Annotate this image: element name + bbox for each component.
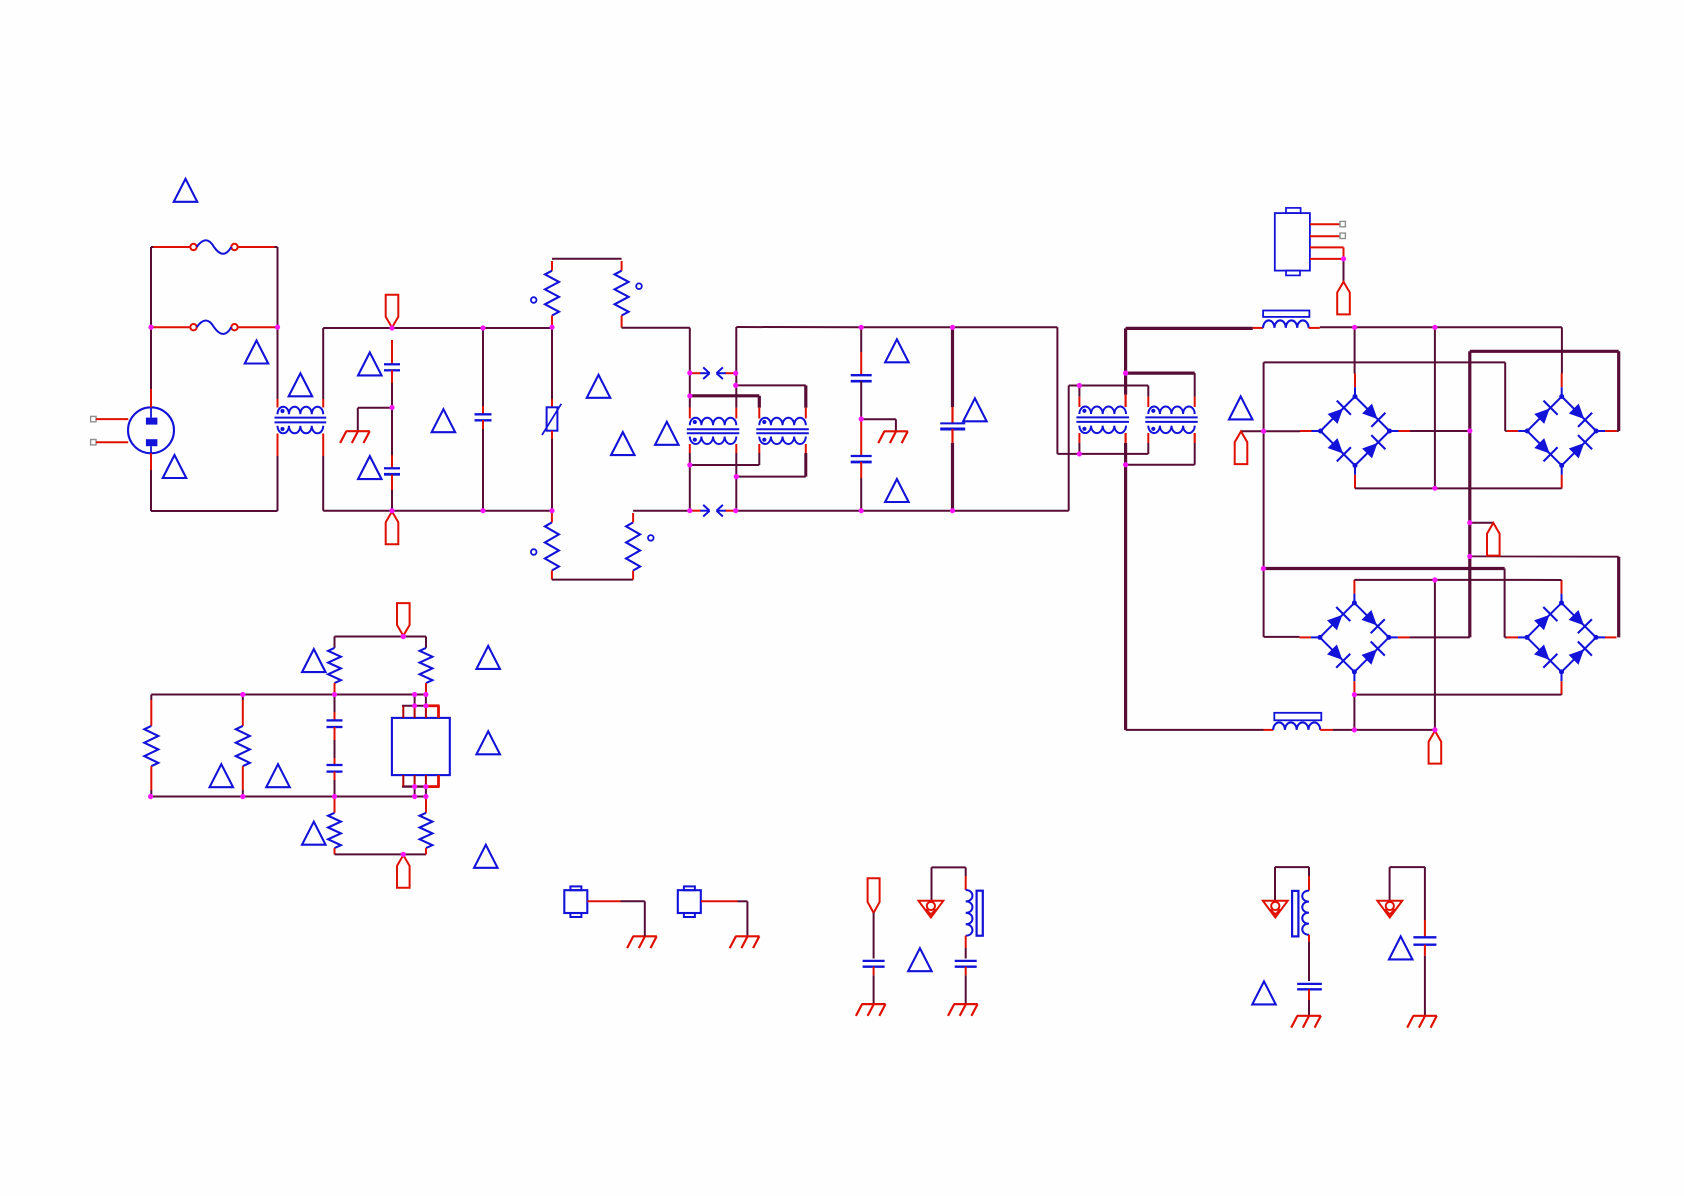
- junction: [734, 474, 739, 479]
- junction: [423, 794, 428, 799]
- wire: [1264, 729, 1274, 731]
- wire: [1310, 235, 1340, 237]
- wire rail bottom: [151, 796, 426, 798]
- wire: [1147, 433, 1149, 443]
- IC bottom pins: [402, 785, 426, 787]
- junction: [687, 462, 692, 467]
- junction: [1123, 371, 1128, 376]
- wire: [322, 434, 324, 457]
- junction: [332, 692, 337, 697]
- wire fuse2 left stub: [151, 326, 154, 328]
- label triangle: [1252, 981, 1276, 1004]
- junction: [859, 325, 864, 330]
- wire: [1343, 259, 1345, 282]
- wire: [277, 434, 279, 457]
- wire: [425, 787, 427, 797]
- wire C pri right up: [1124, 373, 1127, 395]
- wire: [1353, 695, 1355, 730]
- wire choke1 right down: [322, 456, 324, 511]
- wire: [1561, 579, 1563, 581]
- wire: [391, 370, 393, 383]
- wire N up: [1068, 386, 1070, 511]
- wire: [1424, 956, 1426, 1016]
- wire D sec left: [1147, 443, 1149, 454]
- wire: [689, 396, 691, 408]
- wire L across: [1057, 453, 1148, 455]
- wire: [1308, 867, 1310, 876]
- wire link CD bottom: [1126, 464, 1195, 466]
- pin1 mark: [648, 535, 654, 541]
- resistor R9: [328, 813, 341, 848]
- wire: [805, 408, 807, 419]
- wire: [334, 712, 336, 720]
- capacitor C11: [1297, 983, 1322, 985]
- wire: [391, 408, 393, 456]
- wire: [689, 453, 691, 465]
- wire: [1389, 867, 1391, 900]
- wire: [150, 766, 152, 790]
- wire: [150, 453, 152, 470]
- fuse F2: [190, 324, 196, 330]
- wire: [737, 900, 747, 902]
- junction: [389, 325, 394, 330]
- connector pin P1: [91, 416, 96, 421]
- wire: [1504, 569, 1506, 638]
- earth ground: [627, 936, 657, 948]
- wire N down: [150, 470, 152, 511]
- wire: [965, 975, 967, 1004]
- wire: [758, 453, 760, 465]
- junction: [412, 692, 417, 697]
- wire: [391, 490, 393, 511]
- wire: [931, 867, 933, 900]
- junction: [1341, 256, 1346, 261]
- wire loop top: [335, 636, 427, 638]
- wire: [1124, 433, 1126, 443]
- junction: [1352, 692, 1357, 697]
- wire: [391, 383, 393, 408]
- CM choke L1: [278, 407, 324, 434]
- label triangle: [655, 422, 679, 445]
- wire: [746, 901, 748, 936]
- resistor R6: [236, 726, 250, 766]
- wire: [551, 261, 553, 271]
- wire: [873, 967, 875, 976]
- label triangle: [245, 341, 269, 364]
- wire: [242, 790, 244, 797]
- wire: [242, 766, 244, 790]
- wire choke1 left up: [277, 327, 279, 399]
- label triangle: [476, 646, 500, 669]
- wire rail: [1320, 326, 1562, 328]
- wire: [1194, 433, 1196, 443]
- wire: [551, 431, 553, 439]
- wire: [1505, 430, 1507, 432]
- label triangle: [266, 764, 290, 787]
- thermal switch S2: [678, 890, 701, 913]
- wire: [1308, 876, 1310, 891]
- wire out top: [1124, 328, 1127, 373]
- junction: [733, 508, 738, 513]
- junction: [148, 325, 153, 330]
- wire: [632, 571, 634, 580]
- wire y556: [1470, 555, 1619, 557]
- wire jog bottom: [552, 579, 633, 581]
- reference port: [1377, 901, 1402, 918]
- wire D pri right: [1194, 373, 1196, 397]
- label triangle: [163, 455, 187, 478]
- junction: [389, 405, 394, 410]
- junction: [1432, 486, 1437, 491]
- wire: [860, 478, 862, 511]
- wire: [425, 637, 427, 648]
- wire: [334, 727, 336, 740]
- wire: [860, 352, 862, 375]
- wire: [154, 246, 191, 248]
- junction: [549, 325, 554, 330]
- wire rail top: [151, 694, 426, 696]
- wire rail: [861, 510, 952, 512]
- fuse F1: [190, 244, 196, 250]
- wire: [1264, 636, 1300, 638]
- junction: [401, 852, 406, 857]
- label triangle: [908, 948, 932, 971]
- earth ground: [1407, 1016, 1437, 1028]
- bridge rectifier D2: [1527, 397, 1562, 432]
- wire thick 568: [1263, 567, 1504, 570]
- wire: [1308, 935, 1310, 942]
- wire: [1505, 579, 1562, 581]
- wire: [482, 429, 484, 511]
- label triangle: [1389, 936, 1413, 959]
- wire: [334, 780, 336, 797]
- wire: [334, 772, 336, 780]
- wire: [1424, 867, 1426, 920]
- wire: [1424, 920, 1426, 937]
- wire: [414, 695, 416, 706]
- transformer T1: [690, 418, 737, 444]
- wire: [860, 419, 862, 456]
- wire out rail: [1126, 327, 1253, 330]
- earth ground: [340, 431, 370, 443]
- junction: [733, 383, 738, 388]
- Y-capacitor C5: [851, 455, 872, 457]
- wire: [242, 695, 244, 701]
- wire B pri left drop: [758, 396, 761, 408]
- junction: [1261, 429, 1266, 434]
- capacitor C10: [955, 960, 977, 962]
- wire: [735, 453, 737, 477]
- wire fuse2 right stub: [275, 326, 278, 328]
- wire thick to B: [690, 394, 760, 397]
- net port flag: [1337, 282, 1350, 315]
- wire: [551, 328, 553, 399]
- wire: [391, 340, 393, 364]
- IC top pins: [402, 705, 426, 707]
- wire fuse loop left top: [151, 246, 154, 248]
- label triangle: [474, 845, 498, 868]
- wire C sec right down: [1124, 443, 1127, 465]
- wire: [1274, 867, 1276, 900]
- coil L7: [1302, 891, 1309, 935]
- junction: [480, 508, 485, 513]
- AC plug J1: [128, 407, 174, 453]
- core bar: [977, 891, 983, 936]
- series inductor L4: [1263, 320, 1309, 327]
- junction: [1352, 325, 1357, 330]
- junction: [1467, 428, 1472, 433]
- series inductor L5: [1273, 722, 1320, 730]
- net port flag: [868, 878, 880, 913]
- wire: [621, 316, 623, 328]
- resistor R7: [328, 648, 341, 683]
- wire: [1470, 522, 1494, 524]
- wire: [587, 900, 620, 902]
- wire L up: [150, 247, 152, 389]
- wire: [334, 848, 336, 854]
- wire: [1308, 942, 1310, 981]
- label triangle: [302, 649, 326, 672]
- wire rail corner: [1561, 327, 1563, 373]
- wire: [1320, 729, 1333, 731]
- wire: [551, 571, 553, 580]
- wire: [951, 429, 953, 443]
- wire: [1333, 729, 1435, 731]
- wire: [1353, 579, 1355, 582]
- junction: [148, 794, 153, 799]
- Y-capacitor C4: [851, 374, 872, 376]
- junction: [1432, 727, 1437, 732]
- wire: [805, 444, 807, 453]
- wire out bottom rail: [1126, 729, 1264, 731]
- wire L drop: [689, 328, 691, 373]
- wire thick: [1470, 350, 1619, 353]
- wire: [1147, 397, 1149, 407]
- wire: [1434, 580, 1436, 730]
- resistor R1: [545, 271, 559, 316]
- bridge rectifier D1: [1321, 397, 1356, 432]
- battery/relay K1: [1275, 213, 1310, 271]
- junction: [687, 393, 692, 398]
- junction: [275, 325, 280, 330]
- wire: [632, 513, 634, 522]
- wire: [735, 408, 737, 419]
- inductor core bar: [1263, 311, 1309, 317]
- net port flag: [397, 855, 410, 888]
- wire: [322, 399, 324, 408]
- transformer T2: [759, 418, 806, 444]
- wire fuse loop right: [275, 246, 278, 248]
- wire: [1308, 1000, 1310, 1016]
- wire: [1124, 395, 1126, 407]
- junction: [1432, 325, 1437, 330]
- wire: [238, 326, 275, 328]
- pin1 mark: [531, 549, 537, 555]
- wire: [1078, 397, 1080, 407]
- resistor R8: [420, 648, 433, 683]
- wire: [1241, 430, 1264, 432]
- wire: [1194, 397, 1196, 407]
- capacitor C12: [1413, 936, 1436, 938]
- wire sec link2: [736, 476, 806, 478]
- net port flag: [1487, 523, 1500, 556]
- wire: [1310, 258, 1344, 260]
- wire: [242, 700, 244, 726]
- wire gnd drop2: [895, 419, 897, 431]
- wire: [701, 900, 737, 902]
- wire: [150, 790, 152, 797]
- junction: [423, 692, 428, 697]
- wire out bottom: [1124, 465, 1127, 730]
- wire: [425, 848, 427, 854]
- wire: [1308, 989, 1310, 1000]
- junction: [1467, 520, 1472, 525]
- wire thick: [1617, 351, 1620, 431]
- wire: [873, 975, 875, 1004]
- wire y362: [1264, 361, 1506, 363]
- wire choke1 left down: [277, 456, 279, 511]
- wire sec link: [690, 464, 760, 466]
- wire: [1410, 430, 1470, 432]
- wire N across: [1069, 385, 1149, 387]
- spark gap G2: [692, 510, 701, 512]
- wire: [482, 328, 484, 406]
- wire: [1309, 327, 1320, 329]
- junction: [687, 370, 692, 375]
- wire: [1409, 636, 1469, 638]
- label triangle: [1229, 396, 1253, 419]
- wire: [1561, 487, 1563, 489]
- capacitor C7: [327, 719, 343, 721]
- resistor R4: [626, 522, 640, 570]
- wire: [965, 936, 967, 948]
- junction: [1352, 727, 1357, 732]
- wire: [689, 444, 691, 453]
- wire top link: [1275, 866, 1309, 868]
- wire: [965, 867, 967, 876]
- junction: [412, 794, 417, 799]
- net port flag: [1235, 431, 1248, 464]
- junction: [1077, 383, 1082, 388]
- wire: [1310, 246, 1344, 248]
- wire: [96, 441, 128, 443]
- wire C pri left: [1078, 386, 1080, 397]
- pin1 mark: [636, 283, 642, 289]
- wire: [965, 967, 967, 976]
- wire: [644, 926, 646, 937]
- wire: [735, 444, 737, 453]
- wire: [951, 407, 953, 423]
- wire: [1434, 327, 1436, 488]
- label triangle: [302, 822, 326, 845]
- wire net down: [1263, 362, 1265, 637]
- wire gnd tap2: [861, 418, 896, 420]
- X-capacitor C6: [940, 422, 965, 424]
- label triangle: [358, 456, 382, 479]
- wire: [391, 475, 393, 490]
- IC U1: [392, 718, 450, 775]
- label triangle: [210, 764, 234, 787]
- wire L down: [1056, 327, 1058, 454]
- label triangle: [587, 375, 611, 398]
- earth ground: [1291, 1016, 1321, 1028]
- wire cross link: [736, 384, 806, 386]
- wire: [150, 700, 152, 726]
- junction: [859, 508, 864, 513]
- wire: [238, 246, 275, 248]
- wire N out: [736, 510, 862, 512]
- junction: [1261, 566, 1266, 571]
- wire jog top: [552, 258, 622, 260]
- wire N bottom: [151, 510, 278, 512]
- label triangle: [432, 409, 456, 432]
- label triangle: [174, 179, 198, 202]
- wire: [150, 389, 152, 407]
- junction: [423, 784, 428, 789]
- wire: [1504, 362, 1506, 431]
- junction: [950, 508, 955, 513]
- wire: [804, 453, 807, 477]
- Y-capacitor C2: [384, 467, 400, 469]
- earth ground: [878, 431, 908, 443]
- resistor R10: [420, 813, 433, 848]
- wire: [1354, 327, 1356, 373]
- wire: [951, 327, 954, 407]
- net port flag: [386, 295, 399, 328]
- wire: [277, 399, 279, 408]
- core bar: [1292, 891, 1298, 937]
- wire thick: [1617, 557, 1620, 638]
- pin1 mark: [531, 297, 537, 303]
- NTC thermistor RT1: [547, 407, 558, 430]
- junction: [240, 794, 245, 799]
- wire: [621, 900, 645, 902]
- wire: [1078, 433, 1080, 443]
- wire: [1264, 430, 1300, 432]
- junction: [1123, 462, 1128, 467]
- wire loop bottom: [335, 853, 427, 855]
- wire: [551, 513, 553, 522]
- wire jog right2: [633, 510, 690, 512]
- Y-capacitor C1: [384, 363, 400, 365]
- CM choke L2: [1079, 406, 1126, 433]
- wire N rail: [323, 510, 552, 512]
- wire: [1505, 636, 1507, 638]
- wire C sec left: [1078, 443, 1080, 454]
- wire: [1310, 223, 1340, 225]
- junction: [1467, 554, 1472, 559]
- wire: [1617, 430, 1619, 432]
- wire: [482, 420, 484, 429]
- junction: [389, 508, 394, 513]
- connector pin: [1340, 233, 1345, 238]
- label triangle: [963, 398, 987, 421]
- wire: [860, 381, 862, 419]
- net port flag: [1429, 731, 1442, 764]
- wire rail: [953, 326, 1058, 328]
- wire: [425, 683, 427, 694]
- junction: [412, 703, 417, 708]
- earth ground: [948, 1004, 978, 1016]
- label triangle: [476, 731, 500, 754]
- wire D pri left: [1147, 386, 1149, 397]
- wire: [1253, 327, 1263, 329]
- capacitor C9: [863, 960, 885, 962]
- wire: [951, 443, 954, 511]
- wire right side down: [277, 247, 279, 327]
- wire: [334, 683, 336, 694]
- label triangle: [611, 432, 635, 455]
